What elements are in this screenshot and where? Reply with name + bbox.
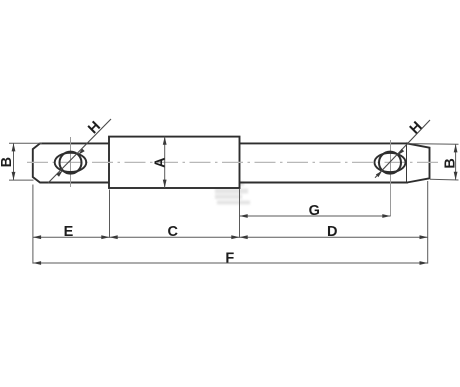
centerline right hole vertical / extension to G xyxy=(390,140,392,216)
leader H left xyxy=(48,119,111,183)
dimension B right extension bottom xyxy=(430,178,459,181)
svg-text:G: G xyxy=(309,203,320,219)
svg-text:B: B xyxy=(0,157,15,167)
dimension B left extension bottom xyxy=(9,179,34,181)
right hole ellipse (surface projection) xyxy=(375,153,406,172)
dimension B left line xyxy=(13,143,15,180)
svg-text:E: E xyxy=(64,224,74,240)
dimension B left extension top xyxy=(9,142,42,144)
watermark xyxy=(213,182,250,205)
svg-text:H: H xyxy=(407,119,426,138)
extension line far left (E/F) xyxy=(32,185,34,264)
extension line at boss right (C/D/G) xyxy=(239,189,241,238)
svg-text:A: A xyxy=(152,157,168,168)
dimension B right line xyxy=(455,144,457,180)
centerline left hole vertical xyxy=(70,137,72,187)
centre boss (large diameter A) xyxy=(109,137,240,188)
leader H right xyxy=(375,120,430,178)
dimension B right extension top xyxy=(408,143,459,146)
right tip xyxy=(407,143,430,182)
right tip chamfer line xyxy=(406,142,408,183)
left hole circle H xyxy=(60,152,82,174)
dimension A line xyxy=(164,137,166,188)
extension line at boss left (E/C) xyxy=(109,190,111,238)
extension line far right (D/F) xyxy=(427,181,429,264)
svg-text:B: B xyxy=(443,158,459,168)
right hole circle H xyxy=(379,152,401,174)
svg-text:C: C xyxy=(168,224,179,240)
right shaft top edge xyxy=(240,142,408,144)
centerline horizontal xyxy=(27,161,440,163)
dimension G line xyxy=(240,215,391,217)
dimension F line xyxy=(33,262,428,264)
left hole ellipse (surface projection) xyxy=(55,153,87,172)
right shaft bottom edge xyxy=(240,182,408,184)
svg-text:F: F xyxy=(225,250,234,266)
left pin body with chamfered cap xyxy=(33,143,109,182)
svg-text:D: D xyxy=(327,224,337,240)
svg-text:H: H xyxy=(85,119,104,138)
dimension E/C/D line xyxy=(33,236,428,238)
